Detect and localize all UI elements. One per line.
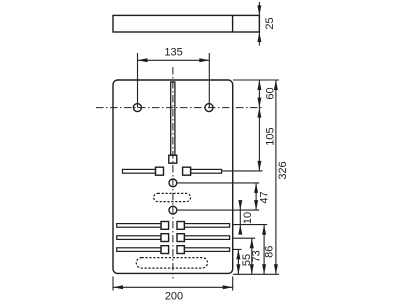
svg-text:86: 86 — [264, 246, 276, 258]
bottom edge extension line — [233, 273, 279, 275]
dimension 55 line — [237, 249, 239, 274]
slot row 3 left square — [161, 246, 169, 254]
hanger slot left bar — [123, 169, 156, 173]
dimension 60/105 line — [258, 80, 260, 171]
hanger slot left square — [156, 167, 164, 175]
square hole below slot — [169, 155, 177, 163]
vertical centerline — [172, 67, 174, 279]
bottom dashed obround — [136, 258, 207, 269]
dimension 86 line — [263, 225, 265, 275]
slot row 3 extension line — [233, 248, 242, 250]
slot row 2 extension line — [233, 237, 255, 239]
svg-text:73: 73 — [250, 250, 262, 262]
dimension 135 arrows — [138, 58, 210, 62]
slot row 1 left bar — [117, 224, 161, 228]
svg-text:25: 25 — [264, 17, 276, 29]
slot row 1 extension line — [233, 224, 267, 226]
dimension 55 arrows — [236, 249, 240, 274]
hanger slot right square — [183, 167, 191, 175]
plate outline (front view) — [113, 80, 233, 273]
circle hole 2 (middle) — [169, 206, 177, 214]
top edge extension line — [233, 79, 279, 81]
slot row 2 left bar — [117, 236, 161, 240]
side view rectangle (top) — [113, 15, 259, 32]
slot row 2 right bar — [184, 236, 229, 240]
svg-text:200: 200 — [165, 291, 183, 300]
dimension 326 line — [275, 80, 277, 274]
svg-text:326: 326 — [277, 161, 289, 179]
dimension 60/105 arrows — [257, 80, 261, 171]
slot row 1 right square — [177, 222, 184, 230]
dimension 86 arrows — [262, 225, 266, 275]
dimension 200 arrows — [113, 285, 233, 289]
svg-text:105: 105 — [265, 127, 277, 145]
circle hole 1 (middle) — [169, 179, 177, 187]
hole left — [133, 104, 141, 112]
dimension 135 line — [138, 59, 210, 61]
dimension 200 line — [113, 286, 233, 288]
dimension 135 extension lines — [138, 53, 210, 108]
side view divider line — [232, 15, 234, 32]
dimension 47 line — [255, 183, 257, 210]
middle dashed obround — [154, 193, 191, 201]
hole right — [205, 104, 213, 112]
slot row 2 left square — [161, 234, 169, 242]
slot row 1 right bar — [184, 224, 229, 228]
dimension 10 line — [239, 202, 241, 231]
dimension 47 arrows — [254, 183, 258, 210]
circle 1 extension line — [178, 182, 260, 184]
horizontal centerline through holes — [96, 107, 263, 109]
slot row 3 right bar — [184, 248, 229, 252]
slot row 3 left bar — [117, 248, 161, 252]
hanger slot extension line — [222, 170, 263, 172]
hanger slot right bar — [191, 169, 222, 173]
svg-text:135: 135 — [164, 46, 182, 58]
dimension 73 line — [251, 238, 253, 274]
svg-text:47: 47 — [259, 191, 271, 203]
slot row 1 left square — [161, 222, 169, 230]
dimension 25 line — [258, 2, 260, 46]
dimension 25 arrows — [257, 5, 261, 42]
circle 2 extension line — [178, 209, 260, 211]
dimension 200 extension lines — [113, 277, 233, 291]
dimension 73 arrows — [250, 238, 254, 274]
svg-text:10: 10 — [242, 212, 254, 224]
vertical slot — [171, 82, 175, 155]
slot row 2 right square — [177, 234, 184, 242]
dimension 10 arrows (outside) — [238, 200, 242, 235]
slot row 3 right square — [177, 246, 184, 254]
dimension 326 arrows — [274, 80, 278, 274]
